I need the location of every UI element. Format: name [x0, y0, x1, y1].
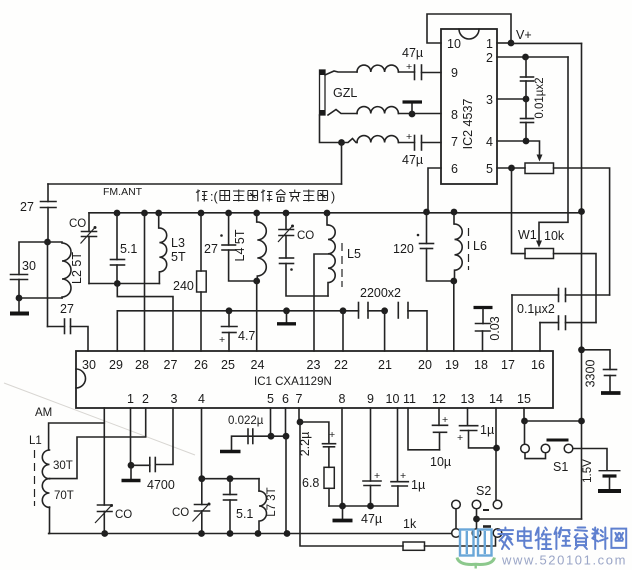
svg-text:www.520101.com: www.520101.com — [501, 553, 627, 568]
svg-text:10: 10 — [447, 37, 461, 51]
svg-text:CO: CO — [172, 507, 189, 519]
svg-text:L5: L5 — [347, 247, 361, 261]
wire L2 left side — [47, 242, 49, 327]
svg-text:V+: V+ — [516, 28, 532, 42]
capacitor 4700 — [131, 464, 150, 466]
wire to pin8 — [399, 113, 442, 115]
svg-text:10µ: 10µ — [430, 455, 451, 469]
ground bar on bus4 — [283, 307, 290, 314]
svg-text:5.1: 5.1 — [236, 507, 253, 521]
svg-text:13: 13 — [461, 392, 475, 406]
svg-text:6: 6 — [282, 392, 289, 406]
wire jog to pin27 — [117, 284, 173, 352]
node V+ bus2 — [89, 212, 582, 214]
capacitor 30 — [19, 242, 48, 275]
svg-text:+: + — [374, 470, 380, 482]
capacitor 0.01u lower — [525, 99, 527, 119]
svg-text:0.03: 0.03 — [488, 316, 502, 340]
capacitors 0.1ux2 — [512, 294, 559, 296]
wire L6 node to pin19 — [453, 281, 455, 351]
node bus4 to pin29 — [117, 310, 358, 312]
wire L1 tap to pin2 — [50, 408, 146, 479]
inductor L1 30T/70T — [49, 423, 105, 450]
svg-text:L7 3T: L7 3T — [266, 487, 278, 516]
node FM.ANT bus — [48, 183, 342, 185]
svg-text:CO: CO — [69, 218, 86, 230]
battery 1.5V — [573, 449, 607, 470]
svg-text:3: 3 — [486, 93, 493, 107]
svg-text:L2 5T: L2 5T — [70, 252, 84, 284]
svg-text:27: 27 — [164, 358, 178, 372]
svg-text:7: 7 — [451, 135, 458, 149]
wire pot right to far column — [554, 168, 610, 295]
svg-text:2: 2 — [486, 51, 493, 65]
svg-text:+: + — [406, 131, 412, 143]
wire pin4 down — [201, 408, 203, 479]
capacitor 47u top — [399, 71, 415, 73]
svg-text:8: 8 — [451, 108, 458, 122]
svg-text:L6: L6 — [473, 239, 487, 253]
svg-text:19: 19 — [445, 358, 459, 372]
op-amp IC2 4537 package — [441, 29, 497, 184]
svg-text:0.022µ: 0.022µ — [228, 415, 264, 427]
node bottom bus — [49, 533, 452, 535]
svg-text:30T: 30T — [53, 460, 73, 472]
svg-text:7: 7 — [296, 392, 303, 406]
svg-text:S2: S2 — [476, 484, 491, 498]
svg-text:10: 10 — [386, 392, 400, 406]
capacitor 3300 — [578, 346, 585, 353]
svg-text:+: + — [457, 432, 463, 444]
wire pin2 rail down to W1 arrow — [540, 57, 569, 222]
inductor L7 3T — [258, 479, 260, 491]
IC1 CXA1129N package — [76, 351, 553, 408]
svg-text:27: 27 — [204, 242, 218, 256]
svg-text:14: 14 — [489, 392, 503, 406]
watermark CJK text — [498, 528, 513, 550]
svg-text:2: 2 — [142, 392, 149, 406]
svg-text:24: 24 — [251, 358, 265, 372]
svg-text:4: 4 — [486, 135, 493, 149]
capacitor 0.022u — [270, 408, 272, 436]
svg-text:3300: 3300 — [584, 360, 598, 388]
wire L5 tap to pin23 — [314, 254, 328, 351]
svg-text:5: 5 — [267, 392, 274, 406]
potentiometer on IC2 pin5 — [525, 163, 554, 174]
note text — [196, 190, 208, 202]
svg-text:W1: W1 — [518, 228, 537, 242]
svg-text:6.8: 6.8 — [302, 476, 319, 490]
svg-text:27: 27 — [60, 302, 74, 316]
capacitor 0.03 with chassis bar — [474, 306, 493, 309]
capacitor 10u pins11-12 — [408, 408, 440, 450]
wire GZL bottom to junction — [320, 115, 342, 143]
svg-text:25: 25 — [221, 358, 235, 372]
capacitor 47u output — [370, 408, 372, 481]
svg-text:70T: 70T — [54, 490, 74, 502]
wire IC2 pin6 down to V+ bus — [428, 168, 441, 212]
variable capacitor CO fm1 — [88, 213, 90, 232]
svg-text:8: 8 — [339, 392, 346, 406]
capacitor 27 antenna — [47, 184, 49, 202]
capacitor 1u pin10 — [397, 408, 399, 482]
svg-text:): ) — [331, 190, 335, 204]
inductor L2 5T — [48, 241, 63, 243]
svg-text:27: 27 — [20, 200, 34, 214]
capacitor 27 (L4 tank) — [225, 210, 232, 217]
wire pin14 to S2 — [495, 408, 497, 499]
svg-text:11: 11 — [403, 392, 416, 406]
svg-text:2200x2: 2200x2 — [360, 286, 401, 300]
switch S1 — [524, 421, 526, 444]
inductor L6 — [451, 209, 458, 216]
svg-text:9: 9 — [451, 66, 458, 80]
resistor 1k + wire pin7 down — [300, 422, 403, 546]
node ground row y506 — [329, 505, 398, 507]
wire pin3 — [497, 98, 526, 100]
svg-text:20: 20 — [418, 358, 432, 372]
svg-text:L1: L1 — [29, 435, 42, 447]
svg-text:1: 1 — [127, 392, 134, 406]
node bus3 — [89, 283, 159, 285]
svg-text:1k: 1k — [403, 517, 417, 531]
watermark book icon — [460, 530, 492, 556]
inductor L3 5T — [155, 210, 162, 217]
svg-text:30: 30 — [82, 358, 96, 372]
svg-text:17: 17 — [501, 358, 515, 372]
capacitor 120 — [423, 209, 430, 216]
wire pin6 to bottom bus — [285, 436, 287, 533]
capacitor 4.7 — [226, 307, 233, 314]
capacitors 2200x2 — [340, 307, 347, 314]
svg-text:L4 5T: L4 5T — [233, 229, 247, 261]
wire pin8 — [341, 408, 343, 506]
svg-text:1: 1 — [486, 37, 493, 51]
svg-text:5T: 5T — [171, 250, 186, 264]
svg-text:+: + — [406, 61, 412, 73]
svg-text:22: 22 — [334, 358, 348, 372]
wire pin5 down to W1 left — [512, 168, 526, 254]
svg-text:1.5V: 1.5V — [582, 459, 594, 483]
variable capacitor CO fm2 — [283, 210, 290, 217]
wire pin2 — [497, 56, 568, 58]
svg-text:0.01µx2: 0.01µx2 — [534, 77, 546, 118]
scan artifact diagonal — [4, 383, 195, 455]
svg-text:CO: CO — [297, 230, 314, 242]
svg-text:5: 5 — [486, 162, 493, 176]
svg-text:9: 9 — [367, 392, 374, 406]
svg-text:47µ: 47µ — [402, 46, 423, 60]
wire L2 bottom — [19, 297, 62, 299]
svg-text:3: 3 — [171, 392, 178, 406]
svg-text:+: + — [329, 429, 335, 441]
capacitor 0.01u upper — [525, 57, 527, 77]
svg-text:5.1: 5.1 — [120, 242, 137, 256]
svg-text:30: 30 — [22, 259, 36, 273]
svg-text:240: 240 — [173, 279, 194, 293]
svg-text:1µ: 1µ — [480, 423, 494, 437]
ground below 30 — [18, 298, 20, 312]
svg-text:29: 29 — [109, 358, 123, 372]
variable capacitor CO am1 — [98, 504, 113, 506]
svg-text:0.1µx2: 0.1µx2 — [517, 302, 555, 316]
svg-text:4.7: 4.7 — [238, 329, 255, 343]
svg-text:+: + — [442, 414, 448, 426]
inductor top coil — [325, 71, 357, 75]
inductor middle coil — [328, 110, 357, 116]
capacitor 1u pin13 — [467, 408, 469, 426]
svg-text:47µ: 47µ — [361, 512, 382, 526]
svg-text:120: 120 — [393, 242, 414, 256]
capacitor 2.2u — [300, 422, 329, 444]
svg-text:18: 18 — [474, 358, 488, 372]
wire W1 right down — [554, 254, 597, 323]
capacitor 5.1 — [114, 210, 121, 217]
svg-text:S1: S1 — [553, 460, 568, 474]
inductor L4 5T — [253, 210, 260, 217]
svg-text::(: :( — [210, 190, 218, 204]
svg-text:26: 26 — [194, 358, 208, 372]
wire pin1 to ground — [130, 408, 132, 465]
inductor L5 with tap — [324, 210, 331, 217]
node V+ pin1 — [497, 42, 511, 44]
svg-text:1µ: 1µ — [411, 478, 425, 492]
wire pin4 to pot arrow — [497, 141, 540, 155]
svg-text:IC2 4537: IC2 4537 — [461, 99, 475, 150]
resistor 240 — [198, 210, 205, 217]
wire pin7 node — [298, 408, 300, 422]
svg-text:12: 12 — [432, 392, 446, 406]
wire pin15 node — [523, 408, 525, 421]
wire V+ to rail — [511, 42, 582, 44]
svg-text:15: 15 — [517, 392, 531, 406]
svg-text:GZL: GZL — [333, 86, 357, 100]
capacitor 47u bottom — [399, 142, 415, 144]
svg-text:6: 6 — [451, 162, 458, 176]
svg-text:23: 23 — [307, 358, 321, 372]
transducer GZL — [320, 70, 326, 115]
svg-text:21: 21 — [378, 358, 392, 372]
wire V+ rail right side — [581, 43, 583, 519]
svg-text:4: 4 — [198, 392, 205, 406]
svg-text:16: 16 — [531, 358, 545, 372]
capacitor 5.1 am — [229, 479, 231, 495]
svg-text:10k: 10k — [544, 229, 565, 243]
wire pin28 — [141, 210, 148, 217]
wire L4 node to pin24 — [256, 281, 258, 351]
svg-text:IC1 CXA1129N: IC1 CXA1129N — [254, 376, 332, 388]
svg-text:AM: AM — [35, 407, 52, 419]
svg-text:28: 28 — [135, 358, 149, 372]
variable capacitor CO am2 — [201, 479, 203, 505]
wire pin10 loop to V+ — [427, 14, 511, 43]
potentiometer W1 10k — [525, 249, 554, 259]
svg-text:+: + — [400, 470, 406, 482]
svg-text:CO: CO — [115, 509, 132, 521]
svg-text:47µ: 47µ — [402, 153, 423, 167]
svg-text:L3: L3 — [171, 236, 185, 250]
wire junction down to FM bus — [341, 143, 343, 185]
capacitor 27 coupling — [48, 326, 65, 328]
svg-text:+: + — [219, 334, 225, 346]
resistor 6.8 — [328, 447, 330, 468]
capacitor trimmer below CO — [285, 236, 287, 259]
svg-text:4700: 4700 — [147, 478, 175, 492]
inductor bottom coil — [342, 139, 358, 143]
chassis bar at pin8 — [411, 104, 413, 114]
svg-text:FM.ANT: FM.ANT — [103, 186, 143, 198]
